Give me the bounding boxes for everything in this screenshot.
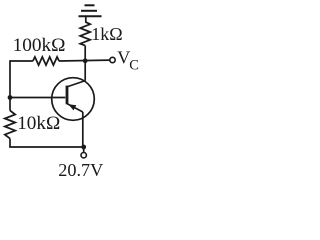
wire left vertical lower [9, 139, 11, 147]
svg-text:10kΩ: 10kΩ [17, 113, 60, 134]
wire top horizontal left segment [10, 60, 33, 62]
transistor Q1 circle [52, 78, 95, 121]
wire emitter vertical [82, 112, 84, 147]
node base junction [8, 95, 13, 100]
wire feedback to Vc [59, 59, 110, 62]
transistor Q1 emitter lead [67, 104, 83, 113]
resistor R_B 100k zigzag [33, 57, 59, 65]
terminal Vc [110, 57, 115, 62]
ground [79, 5, 102, 22]
svg-text:C: C [129, 58, 139, 74]
transistor Q1 emitter arrow (PNP) [68, 104, 76, 110]
transistor Q1 collector lead [67, 81, 86, 87]
node bottom junction [81, 145, 86, 150]
node junction collector [83, 58, 88, 63]
wire supply stub [83, 147, 85, 152]
svg-text:1kΩ: 1kΩ [91, 24, 122, 44]
terminal supply 20.7V [81, 153, 86, 158]
resistor R_C 1k zigzag [80, 22, 90, 46]
resistor R_E 10k zigzag [5, 111, 15, 139]
wire collector vertical [84, 46, 86, 81]
transistor Q1 base bar [66, 86, 69, 105]
svg-text:100kΩ: 100kΩ [13, 35, 66, 56]
wire bottom rail [9, 146, 84, 148]
wire left vertical upper [9, 60, 11, 110]
wire base [10, 97, 65, 99]
svg-text:20.7V: 20.7V [58, 160, 103, 180]
